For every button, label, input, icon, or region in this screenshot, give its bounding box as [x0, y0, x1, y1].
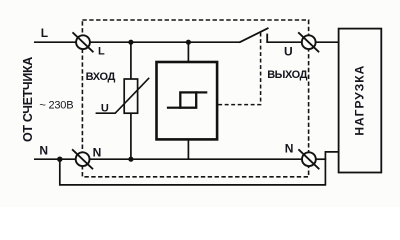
wire N internal bus — [89, 158, 302, 160]
wire varistor top lead — [130, 42, 132, 79]
svg-text:U: U — [284, 45, 293, 59]
svg-text:N: N — [39, 144, 48, 158]
load box — [339, 29, 382, 173]
svg-text:L: L — [98, 46, 105, 58]
wire L input (from meter) — [34, 41, 76, 43]
svg-text:N: N — [93, 146, 102, 160]
terminal U (output) — [302, 35, 316, 49]
svg-text:N: N — [285, 142, 294, 156]
wire output U to load — [316, 41, 339, 43]
device enclosure dashed boundary — [82, 20, 308, 177]
svg-text:~ 230В: ~ 230В — [39, 100, 73, 112]
svg-text:L: L — [41, 26, 48, 40]
hysteresis right tail — [196, 91, 208, 93]
svg-text:НАГРУЗКА: НАГРУЗКА — [352, 65, 366, 136]
wire L internal bus — [90, 41, 240, 43]
terminal L (input) — [76, 35, 90, 49]
wire varistor bottom lead — [130, 113, 132, 159]
hysteresis left tail — [167, 107, 181, 109]
wire relay bottom lead — [187, 139, 189, 160]
wire N input (from meter) — [34, 158, 76, 160]
svg-text:ВХОД: ВХОД — [86, 71, 116, 83]
varistor RU (rectangle) — [124, 79, 137, 113]
svg-text:ВЫХОД: ВЫХОД — [267, 69, 307, 81]
junction dot N-bypass — [57, 157, 62, 162]
wire N bypass (junction to load) — [60, 152, 339, 185]
terminal N (output) — [302, 152, 316, 166]
junction dot L-relay — [186, 40, 191, 45]
relay contact fixed tick — [266, 34, 268, 43]
terminal N (input) — [76, 152, 90, 166]
mechanical link dashed (relay to contact) — [218, 31, 260, 104]
wire contact to U terminal — [266, 41, 302, 43]
wire output N to load — [316, 158, 326, 160]
junction dot L-varistor — [128, 40, 133, 45]
varistor diagonal with U foot — [96, 78, 150, 113]
hysteresis symbol square — [180, 92, 196, 107]
svg-text:ОТ СЧЕТЧИКА: ОТ СЧЕТЧИКА — [21, 57, 35, 142]
relay device box K1 — [157, 62, 218, 139]
junction dot N-varistor — [128, 157, 133, 162]
wire relay top lead — [187, 42, 189, 62]
svg-text:U: U — [101, 103, 109, 115]
relay contact switch blade — [239, 28, 268, 43]
